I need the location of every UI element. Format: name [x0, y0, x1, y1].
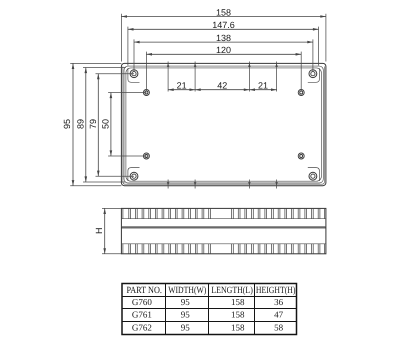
pcb post bottom-left — [143, 153, 149, 159]
dimension 21 right — [249, 80, 276, 91]
table row lines — [122, 297, 297, 322]
top view second wall line — [123, 67, 325, 185]
svg-text:G760: G760 — [132, 297, 152, 307]
dimension 95 — [62, 63, 121, 185]
side view bottom band top line — [121, 243, 326, 245]
dimension 21 left — [168, 80, 195, 91]
svg-text:42: 42 — [217, 80, 227, 90]
svg-text:95: 95 — [62, 119, 72, 129]
svg-text:95: 95 — [181, 322, 191, 332]
svg-text:79: 79 — [88, 119, 98, 129]
svg-text:21: 21 — [177, 80, 187, 90]
svg-text:95: 95 — [181, 310, 191, 320]
svg-text:138: 138 — [216, 33, 231, 43]
side view right rib margin — [323, 208, 325, 253]
svg-text:89: 89 — [76, 119, 86, 129]
svg-text:58: 58 — [274, 322, 284, 332]
top view outer rect — [121, 63, 326, 185]
svg-text:95: 95 — [181, 297, 191, 307]
svg-text:21: 21 — [258, 80, 268, 90]
dimension 42 middle — [195, 80, 249, 91]
pcb post top-right — [298, 90, 304, 96]
bottom edge tick arrowheads — [167, 182, 278, 186]
table column lines — [166, 284, 255, 335]
corner boss top-left — [128, 68, 140, 82]
svg-text:50: 50 — [101, 119, 111, 129]
tick extension lines on top edge — [168, 62, 277, 92]
pcb post bottom-right — [298, 153, 304, 159]
dimension 120 — [146, 45, 301, 91]
top view inner lip line outer — [124, 66, 323, 183]
top view inner lip line inner — [126, 68, 322, 181]
table row G760 — [132, 297, 284, 307]
dimension 50 — [101, 93, 147, 157]
svg-text:158: 158 — [231, 310, 245, 320]
svg-text:120: 120 — [216, 45, 231, 55]
dimension 138 — [134, 33, 313, 72]
svg-text:158: 158 — [231, 322, 245, 332]
side view middle parting line upper — [121, 225, 326, 227]
corner boss top-right — [308, 68, 320, 82]
screw hole top-left — [130, 70, 138, 78]
screw hole top-right — [309, 70, 317, 78]
side view body outline — [121, 208, 326, 253]
dimension 79 — [88, 74, 134, 177]
svg-text:WIDTH(W): WIDTH(W) — [168, 286, 206, 296]
svg-text:H: H — [94, 228, 104, 235]
dimension 89 — [76, 68, 126, 183]
side view top band bottom line — [121, 218, 326, 220]
screw hole bottom-right — [309, 172, 317, 180]
svg-text:G761: G761 — [132, 310, 152, 320]
svg-text:158: 158 — [216, 8, 231, 18]
dimension H — [94, 208, 121, 253]
corner boss bottom-left — [128, 168, 140, 181]
svg-text:47: 47 — [274, 310, 284, 320]
dimension 158 — [121, 8, 326, 62]
dimension 147.6 — [128, 20, 319, 65]
table row G762 — [132, 322, 284, 332]
svg-text:36: 36 — [274, 297, 284, 307]
screw hole bottom-left — [130, 172, 138, 180]
table header row — [126, 286, 295, 296]
svg-text:158: 158 — [231, 297, 245, 307]
table outer border — [122, 284, 297, 335]
side view left rib margin — [122, 208, 124, 253]
top edge tick arrowheads — [167, 63, 278, 67]
side view top rib slots — [129, 208, 320, 218]
svg-text:G762: G762 — [132, 322, 152, 332]
svg-text:LENGTH(L): LENGTH(L) — [211, 286, 253, 296]
side view middle parting line lower — [121, 227, 326, 229]
svg-text:PART NO.: PART NO. — [126, 286, 162, 296]
side view bottom rib slots — [129, 244, 320, 254]
svg-text:HEIGHT(H): HEIGHT(H) — [256, 286, 296, 296]
table row G761 — [132, 310, 284, 320]
bottom edge tick marks — [168, 180, 277, 189]
svg-text:147.6: 147.6 — [212, 20, 235, 30]
corner boss bottom-right — [308, 168, 320, 181]
pcb post top-left — [143, 90, 149, 96]
